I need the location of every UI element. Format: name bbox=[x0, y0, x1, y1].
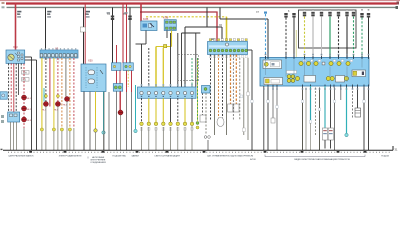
svg-text:K35: K35 bbox=[143, 17, 149, 21]
svg-text:СОЕДИНЕНИЯ: СОЕДИНЕНИЯ bbox=[90, 162, 106, 164]
svg-text:ЗАМКИ: ЗАМКИ bbox=[131, 154, 139, 157]
svg-text:10A: 10A bbox=[23, 72, 28, 75]
svg-text:ПОДСВ: ПОДСВ bbox=[381, 155, 389, 157]
svg-text:ШК: ШК bbox=[211, 38, 215, 41]
svg-text:СВЕТОСИГНАЛИЗАЦИЯ: СВЕТОСИГНАЛИЗАЦИЯ bbox=[154, 154, 180, 157]
svg-text:X50: X50 bbox=[88, 59, 93, 63]
svg-text:РАДИОЭЛЕКТРИЧЕСКАЯ КОМБИНАЦИЯ: РАДИОЭЛЕКТРИЧЕСКАЯ КОМБИНАЦИЯ ПРИБОРОВ bbox=[294, 158, 350, 161]
svg-text:ПОДСВЕТКА: ПОДСВЕТКА bbox=[112, 154, 126, 157]
svg-text:БЛОК: БЛОК bbox=[250, 159, 257, 161]
svg-text:X13: X13 bbox=[13, 45, 18, 49]
svg-text:K38: K38 bbox=[163, 16, 169, 20]
svg-text:САТ. УПРАВЛЕНИЯ ВОЗДУХОЗАБОРНИ: САТ. УПРАВЛЕНИЯ ВОЗДУХОЗАБОРНИКОМ bbox=[207, 154, 253, 157]
svg-text:ЭЛЕКТРОДВИГАТЕЛИ: ЭЛЕКТРОДВИГАТЕЛИ bbox=[59, 154, 82, 157]
svg-text:НЕПОЛНАЯ: НЕПОЛНАЯ bbox=[92, 156, 105, 159]
svg-text:ЦЕНТРАЛЬНЫЙ ЗАМОК: ЦЕНТРАЛЬНЫЙ ЗАМОК bbox=[9, 154, 35, 157]
